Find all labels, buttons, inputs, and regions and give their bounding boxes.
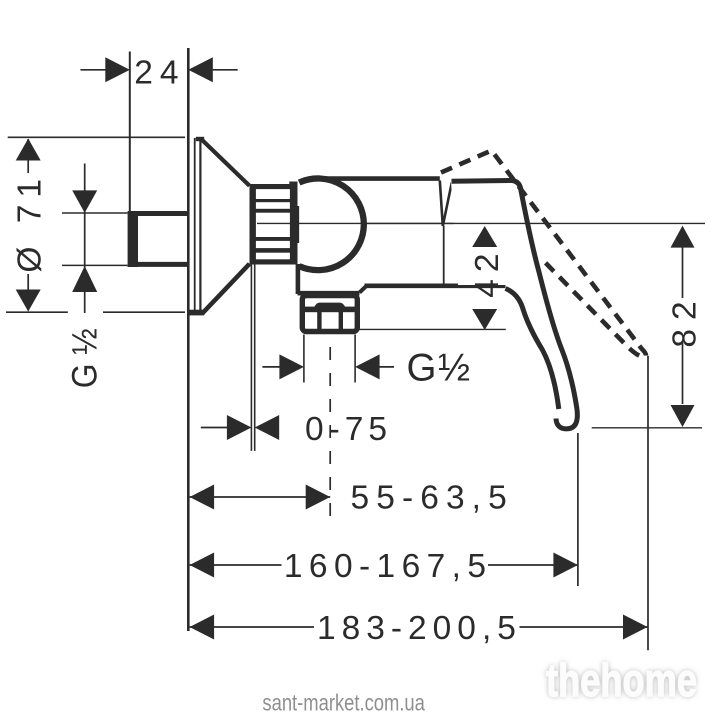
- svg-text:183-200,5: 183-200,5: [317, 610, 522, 647]
- svg-text:0-75: 0-75: [305, 411, 392, 448]
- svg-text:sant-market.com.ua: sant-market.com.ua: [262, 690, 425, 716]
- svg-text:42: 42: [469, 246, 506, 297]
- svg-text:Ø 71: Ø 71: [12, 172, 49, 273]
- svg-text:24: 24: [134, 55, 185, 92]
- svg-text:½: ½: [438, 347, 470, 390]
- svg-text:G: G: [407, 347, 437, 390]
- svg-text:55-63,5: 55-63,5: [351, 479, 514, 516]
- svg-text:82: 82: [667, 292, 704, 347]
- svg-text:thehome: thehome: [546, 654, 697, 706]
- svg-text:160-167,5: 160-167,5: [284, 548, 492, 585]
- svg-text:G ½: G ½: [66, 328, 105, 388]
